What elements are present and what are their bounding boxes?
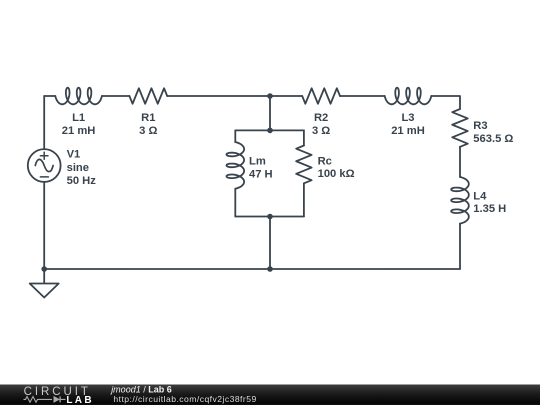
wire box top rail	[235, 129, 304, 131]
wire box bottom to bottom rail	[269, 217, 271, 270]
svg-text:L3: L3	[401, 112, 414, 124]
svg-text:3 Ω: 3 Ω	[312, 125, 330, 137]
svg-text:3 Ω: 3 Ω	[139, 125, 157, 137]
svg-text:R1: R1	[141, 112, 155, 124]
voltage source V1 circle	[28, 149, 61, 182]
V1 sine wave	[35, 159, 53, 171]
wire L1 to R1	[102, 95, 129, 97]
svg-text:L4: L4	[473, 190, 487, 202]
resistor R3	[452, 109, 468, 147]
svg-text:R3: R3	[473, 120, 487, 132]
wire box right upper lead	[303, 130, 305, 145]
wire R3 to L4	[459, 147, 461, 177]
wire L3 to top-right corner	[431, 96, 460, 109]
footer bar	[0, 385, 540, 405]
svg-text:L1: L1	[72, 112, 85, 124]
svg-text:Rc: Rc	[318, 155, 332, 167]
V1 minus sign	[40, 176, 48, 178]
wire box left upper lead	[234, 130, 236, 142]
svg-text:http://circuitlab.com/cqfv2jc3: http://circuitlab.com/cqfv2jc38fr59	[113, 394, 256, 404]
wire node A down to parallel box	[269, 96, 271, 130]
node junction dot box bottom	[267, 214, 273, 220]
node junction dot bottom-left	[41, 266, 47, 272]
svg-text:R2: R2	[314, 112, 328, 124]
resistor R2	[302, 88, 340, 104]
svg-text:21 mH: 21 mH	[62, 125, 96, 137]
wire bottom rail	[44, 268, 460, 270]
node junction dot box top	[267, 128, 273, 134]
wire L4 to bottom-right corner	[459, 224, 461, 269]
node junction dot bottom rail center	[267, 266, 273, 272]
wire junction to ground	[43, 269, 45, 284]
V1 plus sign	[40, 152, 48, 159]
wire box left lower lead	[234, 189, 236, 217]
node A junction dot (top)	[267, 93, 273, 99]
resistor R1	[129, 88, 167, 104]
wire R2 to L3	[340, 95, 385, 97]
inductor L3	[385, 88, 432, 105]
wire left rail top (corner to V1)	[43, 96, 45, 149]
resistor Rc	[296, 146, 312, 184]
svg-text:jmood1 / Lab 6: jmood1 / Lab 6	[110, 384, 172, 394]
svg-text:563.5 Ω: 563.5 Ω	[473, 133, 513, 145]
svg-text:1.35 H: 1.35 H	[473, 203, 506, 215]
svg-text:100 kΩ: 100 kΩ	[318, 168, 355, 180]
svg-text:V1: V1	[67, 149, 81, 161]
inductor L1	[55, 88, 102, 105]
wire box bottom rail	[235, 216, 304, 218]
svg-text:50 Hz: 50 Hz	[67, 175, 97, 187]
CircuitLab logo diode triangle	[54, 396, 61, 403]
wire R1 to R2 through node A	[167, 95, 302, 97]
svg-text:LAB: LAB	[66, 395, 93, 405]
ground symbol	[30, 284, 59, 298]
svg-text:Lm: Lm	[249, 155, 266, 167]
wire top-left horizontal	[44, 95, 55, 97]
inductor Lm	[227, 142, 245, 189]
CircuitLab logo resistor-diode motif	[24, 396, 66, 402]
wire V1 to bottom-left junction	[43, 182, 45, 269]
inductor L4	[451, 177, 469, 224]
svg-text:47 H: 47 H	[249, 168, 273, 180]
svg-text:21 mH: 21 mH	[391, 125, 425, 137]
wire box right lower lead	[303, 183, 305, 216]
svg-text:sine: sine	[67, 162, 89, 174]
